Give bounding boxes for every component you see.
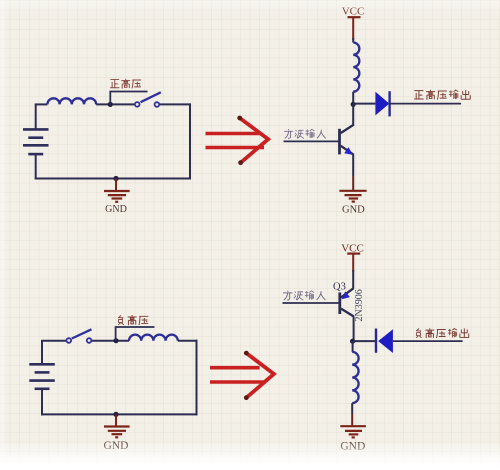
arrow bar bottom xyxy=(206,146,265,150)
battery B2 xyxy=(29,364,55,389)
ground GND symbol xyxy=(104,179,130,202)
node GND junction xyxy=(113,176,118,181)
wire left vertical (battery to bottom rail) xyxy=(41,389,43,416)
wire left vertical (top rail to battery) xyxy=(41,341,43,365)
wire collector to junction xyxy=(353,317,355,342)
wire base input xyxy=(284,140,340,142)
inductor L1 xyxy=(47,98,96,104)
battery B1 xyxy=(23,129,49,154)
node junction (label tap) xyxy=(113,338,118,343)
wire diode to output xyxy=(393,340,463,342)
power VCC symbol xyxy=(347,254,360,272)
net label 正高压 connector xyxy=(110,92,147,105)
wire right vertical xyxy=(196,340,198,416)
transistor Q1 NPN xyxy=(340,125,354,155)
arrow chevron xyxy=(240,118,269,163)
wire right vertical xyxy=(189,103,191,179)
wire top rail left segment xyxy=(35,103,48,105)
node GND junction xyxy=(113,412,118,417)
wire top rail mid segment xyxy=(96,103,135,105)
power VCC symbol xyxy=(348,17,361,40)
wire junction to diode xyxy=(353,340,376,342)
net label 负高压输出 text xyxy=(416,328,469,338)
switch S1 xyxy=(135,92,161,106)
net label 正高压输出 text xyxy=(414,90,470,100)
wire left vertical (battery to top rail) xyxy=(35,104,37,129)
arrow bar top xyxy=(206,132,260,136)
ground GND symbol xyxy=(104,414,130,437)
node collector junction xyxy=(351,102,356,107)
wire bottom rail xyxy=(35,178,191,180)
wire inductor to ground xyxy=(351,403,353,414)
diode D2 xyxy=(376,329,393,354)
inductor L2 xyxy=(353,42,359,91)
wire bottom rail xyxy=(41,413,198,415)
wire junction to inductor xyxy=(352,341,354,352)
net label 正高压 text xyxy=(110,79,141,89)
wire emitter to ground xyxy=(352,155,354,176)
net label 负高压 text xyxy=(118,315,148,325)
node collector junction xyxy=(350,339,355,344)
wire top rail right segment xyxy=(159,103,191,105)
inductor L3 xyxy=(129,335,178,341)
switch S2 xyxy=(67,329,92,343)
wire junction to collector xyxy=(352,104,354,125)
wire inductor to junction xyxy=(352,92,354,105)
arrow chevron xyxy=(246,353,274,398)
net label 方波输入 text xyxy=(283,291,325,301)
arrow dark tips xyxy=(237,116,242,121)
ground GND symbol xyxy=(339,191,366,202)
wire VCC to inductor xyxy=(352,38,354,43)
net label 方波输入 text xyxy=(284,129,326,139)
inductor L4 xyxy=(352,352,358,403)
transistor Q3 PNP 2N3906 xyxy=(340,288,354,316)
wire top rail left segment xyxy=(41,340,67,342)
wire junction to diode xyxy=(353,103,375,105)
net label 负高压 connector xyxy=(116,327,155,341)
wire base input xyxy=(283,302,340,304)
wire top rail right segment xyxy=(178,340,198,342)
wire diode to output xyxy=(390,103,461,105)
wire switch to junction xyxy=(92,340,130,342)
node junction (label tap) xyxy=(108,102,113,107)
arrow bar bottom xyxy=(210,380,266,384)
wire VCC to emitter xyxy=(352,270,354,289)
arrow bar top xyxy=(210,366,260,370)
arrow dark tips xyxy=(244,351,249,356)
diode D1 xyxy=(375,91,389,116)
ground GND symbol xyxy=(340,426,366,437)
wire left vertical (battery to bottom rail) xyxy=(35,154,37,179)
